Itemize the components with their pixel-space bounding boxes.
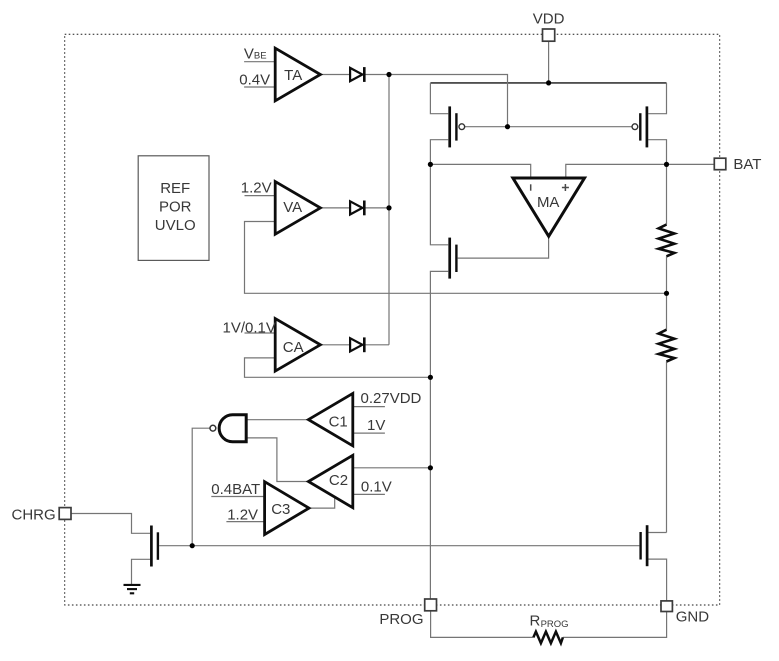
diode D1 <box>350 67 364 82</box>
node VDD rail junction <box>546 80 551 85</box>
svg-text:MA: MA <box>537 194 560 211</box>
wire: RPROG to GND pad <box>563 611 667 637</box>
svg-text:VA: VA <box>283 199 302 216</box>
op-amp MA <box>513 178 585 236</box>
svg-text:VDD: VDD <box>533 11 565 28</box>
svg-text:UVLO: UVLO <box>155 217 196 234</box>
svg-text:0.27VDD: 0.27VDD <box>361 390 422 407</box>
wire: M1 source to rail <box>430 83 448 114</box>
wire: PROG pad to RPROG <box>431 611 534 638</box>
wire: CHRG pad to M4 drain <box>71 514 150 534</box>
node BAT junction <box>664 162 669 167</box>
wire: vertical net x389 (TA/VA/CA summing) <box>388 75 390 345</box>
svg-text:0.1V: 0.1V <box>361 478 392 495</box>
wire: TA input 0.4V stub <box>244 86 275 88</box>
wire: NAND output down to gate drive <box>192 428 210 546</box>
wire: VA input 1.2V stub <box>245 195 276 197</box>
CHRG pin <box>59 508 71 520</box>
comparator C3 <box>265 482 309 535</box>
node C2 input junction <box>428 465 433 470</box>
svg-text:BAT: BAT <box>733 156 761 173</box>
wire: TA input VBE stub <box>244 61 275 63</box>
wire: MA inverting input <box>430 164 530 178</box>
wire: NAND input B to C2 output <box>246 438 308 482</box>
svg-text:0.4BAT: 0.4BAT <box>211 481 260 498</box>
wire: M3 source to PROG net <box>430 271 448 377</box>
wire: CA output to diode D3 <box>320 344 350 346</box>
resistor R2 <box>659 330 675 362</box>
transistor M4 (CHRG NMOS) <box>151 526 158 567</box>
wire: MA non-inverting input <box>566 164 667 178</box>
svg-text:GND: GND <box>676 609 710 626</box>
wire: D1 to node A <box>365 74 389 76</box>
wire: M5 drain stub <box>648 532 666 534</box>
wire: CA input 1V/0.1V stub <box>245 332 276 334</box>
wire: VDD pad to top rail <box>548 41 550 83</box>
wire: C1 input 1V stub <box>353 432 385 434</box>
transistor M3 (middle NMOS) <box>450 238 457 279</box>
svg-text:REF: REF <box>160 180 190 197</box>
wire: R2 down to M5 drain <box>666 362 668 533</box>
op-amp TA <box>275 48 320 101</box>
wire: CA feedback to PROG net <box>245 358 431 377</box>
op-amp CA <box>275 319 320 372</box>
wire: C3 output into C2 <box>309 497 335 508</box>
wire: C3 input 0.4BAT stub <box>211 496 264 498</box>
svg-text:POR: POR <box>159 199 192 216</box>
resistor R1 <box>659 225 675 257</box>
chip boundary (dotted border) <box>65 34 720 605</box>
NAND gate G1 <box>210 415 246 442</box>
wire: C1 input 0.27VDD stub <box>353 406 385 408</box>
svg-text:1.2V: 1.2V <box>227 507 258 524</box>
node M1 drain junction <box>428 162 433 167</box>
svg-text:C3: C3 <box>271 501 290 518</box>
wire: M5 source to GND pad <box>648 559 666 601</box>
node A (TA diode junction) <box>386 72 391 77</box>
svg-text:1V/0.1V: 1V/0.1V <box>223 320 276 337</box>
wire: C2 input 0.1V stub <box>353 493 385 495</box>
op-amp VA <box>275 182 320 235</box>
wire: C2 top input to PROG net <box>353 467 431 469</box>
node gate drive junction <box>190 543 195 548</box>
BAT pin <box>714 158 726 170</box>
diode D2 <box>350 201 364 216</box>
svg-text:1V: 1V <box>367 417 385 434</box>
ground <box>124 585 141 593</box>
wire: D2 to node B <box>365 207 389 209</box>
svg-text:CHRG: CHRG <box>12 507 56 524</box>
comparator C1 <box>308 393 352 445</box>
wire: R1 to R2 through divider node <box>666 256 668 329</box>
wire: VA feedback to battery divider node <box>245 222 667 294</box>
wire: C1 output to NAND input A <box>246 419 308 421</box>
diode D3 <box>350 337 364 352</box>
node B (VA diode junction) <box>386 205 391 210</box>
svg-text:C2: C2 <box>329 472 348 489</box>
block REF/POR/UVLO <box>138 156 209 261</box>
PROG pin <box>425 599 437 611</box>
wire: VA output to diode D2 <box>320 207 350 209</box>
wire: D3 to net x389 <box>365 344 389 346</box>
comparator C2 <box>308 455 352 507</box>
transistor M2 (right PMOS) <box>632 106 647 147</box>
wire: node A to gate bus <box>389 75 508 127</box>
wire: M4 source to ground <box>132 559 151 584</box>
wire: TA output to diode D1 <box>320 74 350 76</box>
svg-text:CA: CA <box>283 339 304 356</box>
wire: PROG net down to PROG pad <box>429 377 431 599</box>
node CA feedback junction <box>428 375 433 380</box>
wire: M2 drain to BAT node <box>648 140 666 165</box>
MA plus mark <box>562 184 569 191</box>
wire: M3 drain up <box>430 164 448 244</box>
wire: top rail (VDD net) <box>430 82 666 84</box>
svg-text:0.4V: 0.4V <box>239 72 270 89</box>
svg-text:C1: C1 <box>329 413 348 430</box>
VDD pin <box>543 29 555 41</box>
wire: C3 input 1.2V stub <box>226 521 264 523</box>
wire: M2 source to rail <box>648 83 666 114</box>
transistor M5 (power NMOS) <box>641 525 648 566</box>
wire: MA output to M3 gate <box>458 236 549 258</box>
svg-text:PROG: PROG <box>379 611 423 628</box>
svg-text:1.2V: 1.2V <box>241 180 272 197</box>
resistor RPROG <box>533 632 563 644</box>
wire: gate drive bus M4 to M5 <box>159 545 639 547</box>
GND pin <box>661 601 672 612</box>
wire: PMOS gate bus <box>465 126 632 128</box>
node divider mid junction <box>664 291 669 296</box>
MA minus mark <box>530 184 532 190</box>
wire: BAT node to pad <box>667 163 715 165</box>
node gate bus junction <box>505 124 510 129</box>
transistor M1 (left PMOS) <box>450 106 465 147</box>
svg-text:TA: TA <box>284 67 302 84</box>
wire: BAT node to R1 <box>666 164 668 224</box>
wire: M1 drain down <box>430 140 448 165</box>
